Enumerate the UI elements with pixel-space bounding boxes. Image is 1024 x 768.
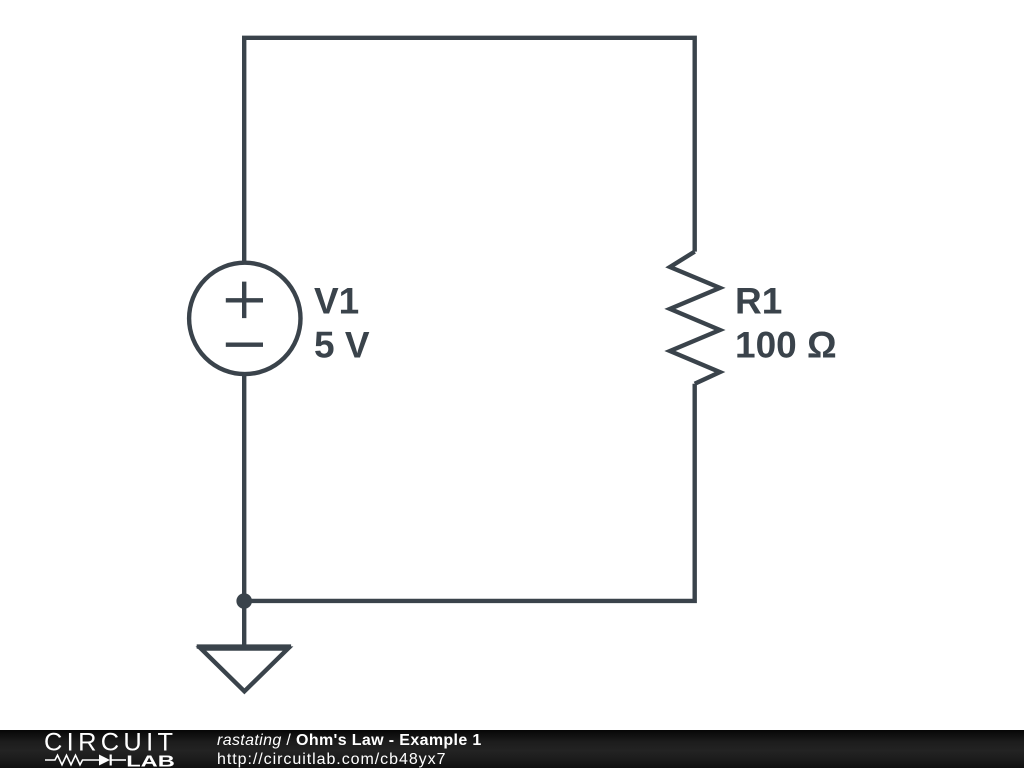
svg-text:V1: V1	[314, 280, 359, 321]
svg-text:LAB: LAB	[126, 753, 175, 768]
svg-text:5 V: 5 V	[314, 324, 370, 365]
svg-text:100 Ω: 100 Ω	[735, 324, 837, 365]
svg-text:R1: R1	[735, 280, 782, 321]
svg-text:CIRCUIT: CIRCUIT	[44, 728, 173, 756]
